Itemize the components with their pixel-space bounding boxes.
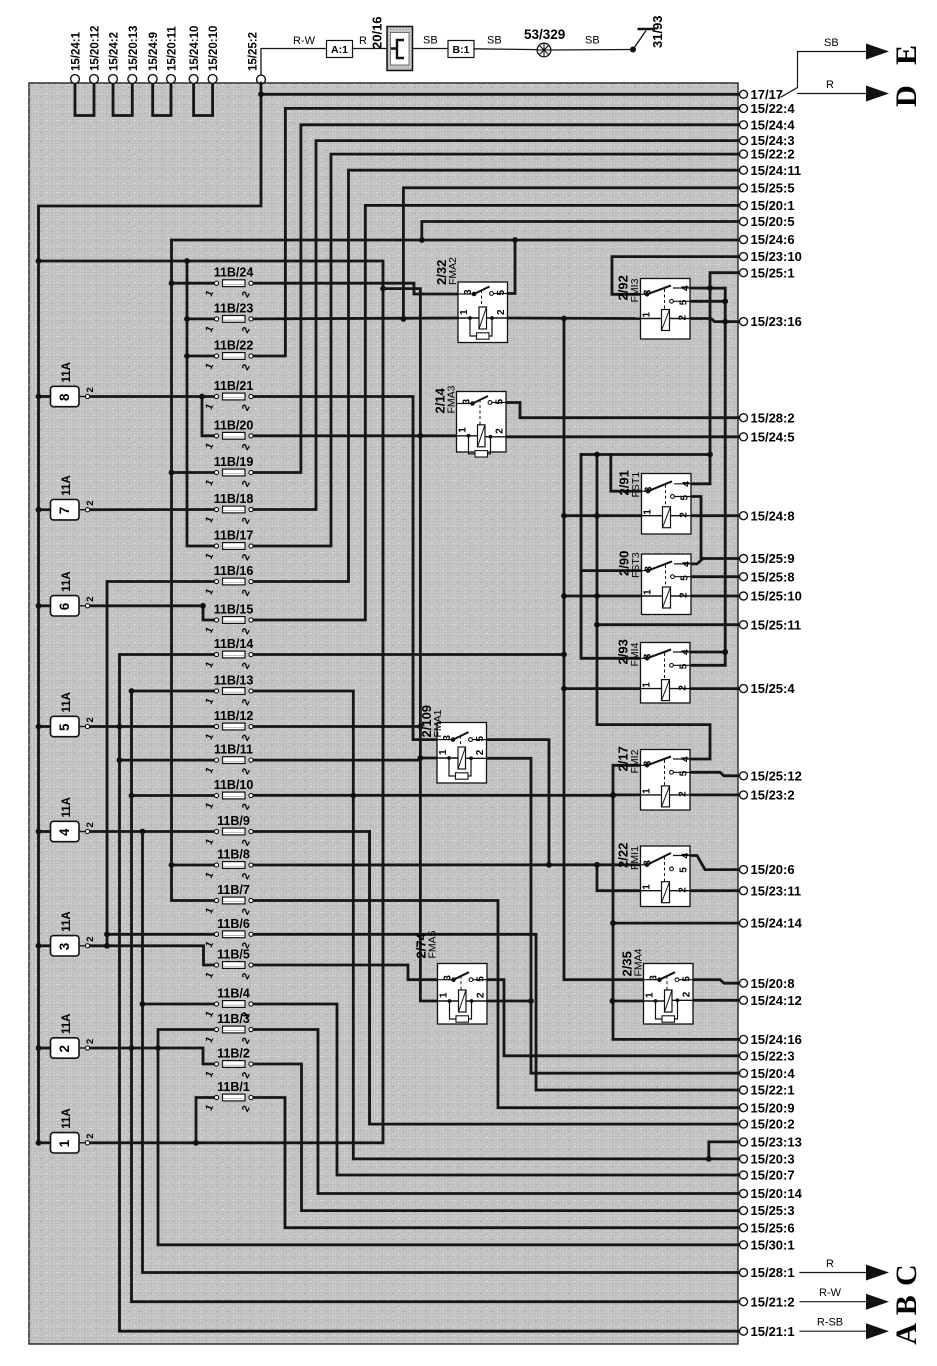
- terminal 15/24:4: [740, 117, 796, 132]
- terminal 15/21:1: [740, 1324, 795, 1339]
- wire bus stub to box 4: [39, 830, 51, 833]
- wire box 2 pin 2: [88, 1048, 217, 1064]
- svg-text:15/24:10: 15/24:10: [189, 26, 201, 71]
- terminal 15/24:12: [740, 993, 802, 1008]
- svg-text:3: 3: [644, 566, 655, 572]
- svg-text:B: B: [890, 1295, 923, 1315]
- svg-text:B:1: B:1: [453, 44, 470, 56]
- svg-text:2: 2: [678, 887, 689, 893]
- wire box 6 pin 2: [88, 604, 204, 607]
- wire 11B/11 to relay 2/109 pin 1: [251, 759, 420, 762]
- svg-text:11A: 11A: [61, 911, 73, 931]
- wire coil bus x566: [564, 319, 644, 980]
- svg-text:11B/24: 11B/24: [214, 266, 254, 280]
- wire bus stub to box 5: [39, 725, 51, 728]
- relay 2/93 FMI4: [616, 639, 692, 703]
- relay 2/91 FST1: [617, 470, 693, 534]
- svg-text:5: 5: [679, 867, 690, 873]
- wire 11B/18 to 15/24:3: [251, 141, 740, 510]
- svg-text:1: 1: [642, 312, 653, 318]
- terminal 15/25:12: [740, 768, 802, 783]
- terminal 15/30:1: [740, 1237, 795, 1252]
- svg-text:15/24:6: 15/24:6: [751, 232, 795, 247]
- svg-text:4: 4: [57, 828, 72, 836]
- wire label R: [359, 35, 367, 47]
- svg-text:5: 5: [682, 976, 693, 982]
- wire bus stub to box 7: [39, 508, 51, 511]
- wire lamp to ground junction: [551, 49, 633, 52]
- svg-text:11B/8: 11B/8: [217, 848, 250, 862]
- wire bus x597: [597, 455, 710, 760]
- wire relay 2/35 pin 2 to 15/24:12: [674, 999, 740, 1002]
- svg-text:1: 1: [458, 427, 469, 433]
- wire coil supply 11B/23 to 2/32 pin 1: [251, 317, 458, 321]
- svg-text:2: 2: [85, 822, 96, 827]
- wire 20/16 to B:1: [413, 48, 449, 50]
- svg-text:15/20:9: 15/20:9: [751, 1100, 795, 1115]
- connector box 2 (11A): [51, 1014, 97, 1059]
- wire B:1 to lamp: [474, 48, 537, 51]
- wire bus stub to box 3: [39, 944, 51, 947]
- svg-text:11B/4: 11B/4: [217, 987, 250, 1001]
- wire feeder x107 11B/16 11B/6 from box 3: [107, 582, 217, 946]
- wire 15/20:5 tap: [422, 222, 740, 241]
- svg-text:15/24:16: 15/24:16: [751, 1032, 802, 1047]
- fuse 11B/21: [204, 379, 254, 413]
- wire stub 11B/11 pin 1: [120, 759, 217, 762]
- wire bus stub to box 8: [39, 395, 51, 398]
- fuse 11B/9: [204, 814, 253, 848]
- svg-text:15/25:6: 15/25:6: [751, 1220, 795, 1235]
- wire 11B/8 to relay 2/22 pin 3: [251, 863, 641, 866]
- svg-text:2: 2: [678, 315, 689, 321]
- connector box 4 (11A): [51, 797, 97, 842]
- terminal 15/20:7: [740, 1168, 795, 1183]
- svg-text:15/20:1: 15/20:1: [751, 198, 795, 213]
- component 20/16: [370, 16, 413, 70]
- wire relay 2/109 pin 2 drop: [485, 758, 740, 1073]
- svg-text:1: 1: [438, 749, 449, 755]
- svg-text:FMI2: FMI2: [629, 749, 641, 773]
- svg-text:15/25:8: 15/25:8: [751, 569, 795, 584]
- wire 17/17 feed: [261, 93, 740, 96]
- svg-text:2: 2: [57, 1045, 72, 1053]
- arrow A (R-SB): [800, 1317, 923, 1345]
- wire relay 2/91 pin 1: [564, 514, 641, 517]
- svg-text:2: 2: [495, 428, 506, 434]
- svg-text:R: R: [826, 79, 834, 91]
- svg-text:5: 5: [680, 495, 691, 501]
- wire 15/25:11 tap: [597, 623, 740, 626]
- terminal 15/24:6: [740, 232, 795, 247]
- wire 11B/24 to relay 2/32 pin 3: [251, 283, 458, 294]
- svg-text:11B/19: 11B/19: [214, 455, 254, 469]
- arrow D (R): [781, 79, 923, 107]
- terminal 15/25:1: [740, 265, 795, 280]
- terminal 15/25:10: [740, 589, 802, 604]
- svg-text:2: 2: [678, 791, 689, 797]
- terminal 15/25:4: [740, 681, 796, 696]
- wire feeder x142.5 to 15/28:1: [143, 832, 740, 1273]
- wire relay 2/14 pin 2 to 15/24:5: [506, 435, 740, 438]
- wire 11B/12 link: [251, 725, 420, 728]
- terminal 15/20:4: [740, 1066, 796, 1081]
- svg-text:4: 4: [681, 853, 692, 859]
- wire relay 2/92 pin 5 elbow: [688, 300, 725, 303]
- fuse 11B/5: [204, 948, 253, 982]
- svg-text:15/24:14: 15/24:14: [751, 916, 803, 931]
- svg-text:15/20:10: 15/20:10: [208, 26, 220, 71]
- terminal 17/17: [740, 87, 784, 102]
- terminal 15/22:2: [740, 147, 795, 162]
- svg-text:11A: 11A: [61, 571, 73, 591]
- svg-text:15/20:14: 15/20:14: [751, 1186, 803, 1201]
- wire bus stub to box 1: [39, 1141, 51, 1144]
- svg-text:SB: SB: [487, 35, 502, 47]
- wire supply row y261 and riser x383 to box 1: [39, 261, 384, 1143]
- svg-text:SB: SB: [423, 35, 438, 47]
- wire pin3 rail y454.5: [581, 453, 710, 456]
- terminal 15/25:8: [740, 569, 795, 584]
- svg-text:53/329: 53/329: [524, 27, 565, 42]
- svg-text:15/24:8: 15/24:8: [751, 508, 795, 523]
- wire relay 2/90 pin 1: [564, 595, 641, 598]
- wire relay 2/35 pin 1 link: [613, 1000, 644, 1003]
- wire relay 2/92 pin 2 to 15/23:16: [690, 319, 740, 322]
- relay 2/92 FMI3: [616, 275, 692, 339]
- svg-text:15/22:3: 15/22:3: [751, 1048, 795, 1063]
- wire box 8 pin 2 to fuses 11B/21 11B/20: [88, 395, 217, 398]
- relay 2/109 FMA1: [419, 705, 487, 783]
- svg-text:3: 3: [57, 942, 72, 950]
- wire box 7 pin 2 to fuse 11B/18: [88, 508, 217, 511]
- terminal 15/22:4: [740, 101, 796, 116]
- wire 11B/7 to 15/20:9: [251, 901, 740, 1108]
- svg-text:11B/5: 11B/5: [217, 948, 250, 962]
- svg-text:15/25:9: 15/25:9: [751, 551, 795, 566]
- wire 15/20:2 corner riser: [368, 832, 371, 1125]
- wire relay 2/90 pin 5 to 15/25:8: [688, 575, 740, 578]
- terminal 15/28:2: [740, 410, 795, 425]
- wire 15/23:10 to relay 2/92 pin 3: [612, 257, 740, 295]
- svg-text:11B/6: 11B/6: [217, 917, 250, 931]
- wire feeder x196 fuse 11B/1 from box 1: [196, 1098, 217, 1143]
- wire 11B/6 to 15/22:1: [251, 934, 740, 1090]
- svg-text:3: 3: [463, 289, 474, 295]
- svg-text:7: 7: [57, 507, 72, 515]
- fuse 11B/11: [204, 743, 253, 777]
- wire relay 2/93 pin 1: [564, 687, 641, 690]
- svg-text:11B/17: 11B/17: [214, 529, 254, 543]
- svg-text:R: R: [826, 1258, 834, 1270]
- wire relay 2/22 pin 2 to 15/23:11: [670, 889, 740, 892]
- wire 15/25:9 line: [701, 557, 740, 560]
- wire 11B/15 to 15/20:1: [251, 205, 740, 620]
- svg-text:4: 4: [682, 481, 693, 487]
- svg-text:4: 4: [681, 285, 692, 291]
- terminal 15/23:10: [740, 249, 802, 264]
- fuse 11B/6: [204, 917, 253, 951]
- svg-text:15/25:12: 15/25:12: [751, 768, 802, 783]
- terminal 15/20:1: [740, 198, 795, 213]
- svg-text:2: 2: [679, 592, 690, 598]
- svg-text:11B/11: 11B/11: [214, 743, 253, 757]
- svg-text:11B/2: 11B/2: [217, 1047, 250, 1061]
- svg-text:3: 3: [643, 289, 654, 295]
- connector box 6 (11A): [51, 571, 97, 616]
- wire feeder x187 fuse 11B/23 11B/22 11B/17: [187, 261, 217, 546]
- wire 11B/19 to 15/24:4: [251, 125, 740, 473]
- wire 2/32 pin 2 to 2/92 pin 1: [508, 317, 641, 320]
- svg-text:11B/1: 11B/1: [217, 1080, 250, 1094]
- svg-text:D: D: [890, 85, 923, 107]
- connector box 1 (11A): [51, 1108, 97, 1153]
- connector box 3 (11A): [51, 911, 97, 956]
- svg-text:15/22:4: 15/22:4: [751, 101, 796, 116]
- wire stub 11B/23 pin 1: [187, 317, 217, 320]
- wire box 4 pin 2 to fuse 11B/9: [88, 830, 217, 833]
- svg-text:2: 2: [85, 500, 96, 505]
- wire relay 2/109 pin1 stub: [420, 757, 437, 760]
- wire feeder x171.5 fuse 11B/24 11B/8 11B/7: [172, 240, 217, 901]
- svg-text:11B/23: 11B/23: [214, 301, 254, 315]
- terminal 15/24:11: [740, 163, 802, 178]
- fuse 11B/19: [204, 455, 254, 489]
- wire relay 2/22 pin 4 to 15/20:6: [690, 856, 740, 870]
- svg-text:11B/10: 11B/10: [214, 778, 254, 792]
- svg-text:FMA1: FMA1: [432, 709, 444, 737]
- fuse 11B/18: [204, 492, 254, 526]
- svg-text:15/21:2: 15/21:2: [751, 1294, 795, 1309]
- svg-text:15/24:1: 15/24:1: [71, 31, 83, 71]
- svg-text:1: 1: [643, 509, 654, 515]
- svg-text:15/23:16: 15/23:16: [751, 314, 802, 329]
- wire drop to relay 2/91 pin 3: [611, 455, 641, 492]
- svg-text:1: 1: [642, 788, 653, 794]
- svg-text:11B/20: 11B/20: [214, 418, 254, 432]
- svg-text:5: 5: [680, 575, 691, 581]
- wire relay 2/22 pin 1 link: [597, 865, 641, 891]
- arrow C (R): [800, 1258, 923, 1286]
- terminal 15/20:3: [740, 1152, 795, 1167]
- wire 15/23:13 elbow: [709, 1142, 740, 1159]
- svg-text:R: R: [359, 35, 367, 47]
- svg-text:15/20:8: 15/20:8: [751, 976, 795, 991]
- wire feeder x158 to 15/30:1: [158, 1030, 740, 1245]
- terminal 15/20:5: [740, 214, 795, 229]
- svg-text:SB: SB: [824, 37, 839, 49]
- wire relay 2/90 pin 4 slant: [690, 559, 703, 564]
- svg-text:3: 3: [462, 399, 473, 405]
- svg-text:11A: 11A: [61, 475, 73, 495]
- svg-text:R-W: R-W: [819, 1287, 842, 1299]
- connector pins 15/24:10 / 15/20:10: [189, 26, 220, 116]
- wire junction dots: [36, 91, 729, 1161]
- wire relay 2/92 pin 4 to 15/25:1: [690, 287, 725, 290]
- relay 2/35 FMA4: [620, 948, 694, 1024]
- wire 11B/14 link to coil bus: [251, 653, 564, 656]
- wire label R-W: [293, 35, 316, 47]
- fuse 11B/22: [204, 339, 254, 373]
- connector pins 15/24:2 / 15/20:13: [109, 26, 140, 116]
- svg-text:5: 5: [679, 299, 690, 305]
- svg-text:FMA4: FMA4: [633, 948, 645, 976]
- svg-text:5: 5: [495, 399, 506, 405]
- svg-text:15/22:2: 15/22:2: [751, 147, 795, 162]
- arrow E (SB): [798, 37, 924, 88]
- terminal 15/23:2: [740, 788, 795, 803]
- wire stub 11B/24 pin 1: [172, 282, 217, 285]
- wire 15/24:6 rail: [172, 239, 740, 242]
- svg-text:E: E: [890, 45, 923, 65]
- fuse 11B/2: [204, 1047, 253, 1081]
- svg-text:2: 2: [476, 992, 487, 998]
- svg-text:11B/22: 11B/22: [214, 339, 254, 353]
- wire vertical x725: [690, 288, 725, 665]
- fuse 11B/10: [204, 778, 254, 812]
- arrow B (R-W): [800, 1287, 923, 1315]
- terminal 15/20:6: [740, 862, 795, 877]
- wire 11B/20 to relay 2/14 pin 1: [251, 434, 457, 437]
- svg-text:15/24:12: 15/24:12: [751, 993, 802, 1008]
- svg-text:FMA5: FMA5: [427, 930, 439, 958]
- terminal 15/24:3: [740, 133, 795, 148]
- svg-text:15/22:1: 15/22:1: [751, 1083, 795, 1098]
- svg-text:15/25:4: 15/25:4: [751, 681, 796, 696]
- svg-text:FMA2: FMA2: [447, 257, 459, 285]
- wire relay 2/17 pin 5 to 15/25:12: [688, 772, 740, 776]
- wire drop to relay 2/93 pin 3: [581, 455, 641, 659]
- svg-text:17/17: 17/17: [751, 87, 784, 102]
- svg-text:15/25:3: 15/25:3: [751, 1203, 795, 1218]
- connector box 8 (11A): [51, 362, 97, 407]
- svg-text:5: 5: [496, 290, 507, 296]
- svg-text:2: 2: [682, 991, 693, 997]
- svg-text:15/25:11: 15/25:11: [751, 617, 802, 632]
- wire label SB: [487, 35, 502, 47]
- svg-text:3: 3: [443, 975, 454, 981]
- svg-text:5: 5: [57, 723, 72, 731]
- svg-text:R-W: R-W: [293, 35, 316, 47]
- svg-text:15/20:13: 15/20:13: [128, 26, 140, 71]
- svg-text:5: 5: [679, 770, 690, 776]
- wire 15/25:5 tap: [403, 188, 739, 319]
- terminal 15/24:14: [740, 916, 803, 931]
- svg-text:5: 5: [476, 976, 487, 982]
- svg-text:11B/18: 11B/18: [214, 492, 254, 506]
- wire feeder x119.5 to 15/21:1: [120, 655, 740, 1332]
- svg-text:FMA3: FMA3: [446, 385, 458, 413]
- svg-text:11B/7: 11B/7: [217, 883, 250, 897]
- wire box 3 pin 2 to fuse 11B/5: [88, 946, 217, 965]
- svg-text:FMI3: FMI3: [629, 278, 641, 302]
- terminal 15/25:3: [740, 1203, 795, 1218]
- svg-text:4: 4: [682, 561, 693, 567]
- terminal 15/20:9: [740, 1100, 795, 1115]
- svg-text:3: 3: [643, 860, 654, 866]
- ground 31/93: [630, 15, 665, 52]
- relay 2/74 FMA5: [414, 930, 488, 1024]
- connector box 5 (11A): [51, 692, 97, 737]
- svg-text:1: 1: [645, 992, 656, 998]
- svg-text:11B/13: 11B/13: [214, 674, 254, 688]
- fuse 11B/16: [204, 564, 254, 598]
- fuse 11B/20: [204, 418, 254, 452]
- svg-text:11A: 11A: [61, 1014, 73, 1034]
- svg-text:2: 2: [678, 685, 689, 691]
- wire feeder x131.5 to 15/21:2: [132, 691, 740, 1302]
- svg-text:11B/21: 11B/21: [214, 379, 254, 393]
- svg-text:11A: 11A: [61, 692, 73, 712]
- svg-text:11B/14: 11B/14: [214, 637, 254, 651]
- terminal 15/20:2: [740, 1117, 795, 1132]
- wire 11B/17 to 15/22:2: [251, 154, 740, 546]
- svg-text:3: 3: [643, 760, 654, 766]
- wire 11B/13 to 15/20:3: [251, 691, 740, 1159]
- wire box 8 branch to 11B/20: [202, 397, 217, 436]
- wire stub 11B/4 pin 1: [143, 1003, 217, 1006]
- wire stub relay 2/90 pin 3: [581, 569, 641, 572]
- wire relay 2/109 pin 5 drop: [485, 740, 549, 865]
- terminal 15/20:14: [740, 1186, 803, 1201]
- svg-text:20/16: 20/16: [370, 16, 385, 49]
- svg-text:SB: SB: [585, 35, 600, 47]
- wire 15/24:6 drop to relay 2/32 pin 5: [508, 240, 516, 294]
- svg-text:15/20:11: 15/20:11: [167, 26, 179, 71]
- relay 2/14 FMA3: [433, 385, 507, 457]
- svg-text:3: 3: [649, 975, 660, 981]
- svg-text:15/20:5: 15/20:5: [751, 214, 795, 229]
- svg-text:15/21:1: 15/21:1: [751, 1324, 795, 1339]
- fuse 11B/14: [204, 637, 254, 671]
- svg-text:15/28:2: 15/28:2: [751, 410, 795, 425]
- svg-text:15/20:12: 15/20:12: [90, 26, 102, 71]
- node 15/25:2: [248, 32, 327, 84]
- wire 11B/10 link to relay 2/17 pin 1: [251, 794, 613, 797]
- wire relay 2/74 pin 5 to 15/22:3: [486, 980, 740, 1056]
- svg-text:15/20:2: 15/20:2: [751, 1117, 795, 1132]
- svg-text:2: 2: [85, 1039, 96, 1044]
- fuse box panel background: [29, 83, 738, 1344]
- svg-text:11B/12: 11B/12: [214, 709, 254, 723]
- terminal 15/20:8: [740, 976, 795, 991]
- svg-text:31/93: 31/93: [650, 15, 665, 48]
- wire relay 2/14 pin 5 to 15/28:2: [506, 403, 740, 418]
- terminal 15/22:3: [740, 1048, 795, 1063]
- terminal 15/23:11: [740, 883, 802, 898]
- svg-text:A:1: A:1: [331, 44, 348, 56]
- fuse 11B/24: [204, 266, 254, 300]
- svg-text:FST1: FST1: [630, 472, 642, 498]
- svg-text:15/24:2: 15/24:2: [109, 32, 121, 71]
- terminal 15/25:6: [740, 1220, 795, 1235]
- svg-text:15/23:2: 15/23:2: [751, 788, 795, 803]
- svg-text:15/24:9: 15/24:9: [148, 32, 160, 71]
- terminal 15/25:11: [740, 617, 802, 632]
- svg-text:1: 1: [642, 682, 653, 688]
- wire 11B/3 to 15/20:14: [251, 1030, 740, 1194]
- wire relay 2/91 pin 5 link: [688, 497, 701, 559]
- svg-text:A: A: [890, 1323, 923, 1345]
- relay 2/22 FMI1: [616, 843, 692, 907]
- svg-text:4: 4: [681, 756, 692, 762]
- svg-text:15/23:13: 15/23:13: [751, 1135, 802, 1150]
- svg-text:15/20:6: 15/20:6: [751, 862, 795, 877]
- svg-text:2: 2: [85, 937, 96, 942]
- terminal 15/24:8: [740, 508, 795, 523]
- svg-text:11B/15: 11B/15: [214, 603, 254, 617]
- svg-text:2: 2: [475, 749, 486, 755]
